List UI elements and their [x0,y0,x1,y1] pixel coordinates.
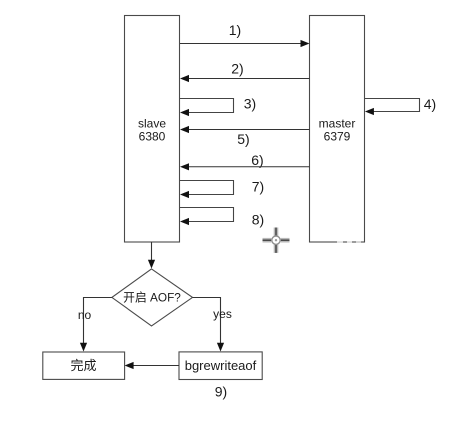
svg-text:4): 4) [424,96,436,112]
dark cores [263,228,290,253]
self-loop 8 at slave [180,208,234,226]
svg-text:bgrewriteaof: bgrewriteaof [185,358,257,373]
svg-text:yes: yes [213,307,232,321]
watermark fade on master bottom border [337,241,361,243]
arrow 1 slave to master [180,40,310,47]
box 完成 [43,352,125,379]
svg-text:开启 AOF?: 开启 AOF? [123,291,181,305]
box bgrewriteaof [179,352,262,380]
svg-text:1): 1) [229,22,241,38]
svg-text:7): 7) [252,179,264,195]
arrow 2 master to slave [180,75,310,82]
svg-text:5): 5) [237,131,249,147]
svg-text:6379: 6379 [324,130,351,144]
no branch wire [80,298,112,352]
arrow 6 master to slave [180,163,310,170]
self-loop 3 at slave [180,99,234,117]
svg-text:no: no [78,308,92,322]
svg-text:完成: 完成 [70,358,96,373]
connector slave to diamond [148,242,155,269]
arrow bgrewriteaof to 完成 [125,362,179,369]
box master 6379 [310,16,365,243]
svg-text:slave: slave [138,117,166,131]
self-loop 7 at slave [180,181,234,199]
svg-text:8): 8) [252,212,264,228]
crosshair cursor [263,228,290,253]
svg-text:6380: 6380 [139,130,166,144]
svg-text:2): 2) [231,61,243,77]
yes branch wire [193,298,225,352]
svg-text:master: master [319,117,356,131]
self-loop 4 at master right [365,99,420,116]
svg-text:3): 3) [244,96,256,112]
svg-text:6): 6) [251,152,263,168]
decision diamond 开启 AOF? [112,269,193,326]
halo arms [263,228,290,253]
arrow 5 master to slave [180,126,310,133]
center ring [272,236,280,244]
box slave 6380 [125,16,180,243]
svg-text:9): 9) [215,384,227,400]
